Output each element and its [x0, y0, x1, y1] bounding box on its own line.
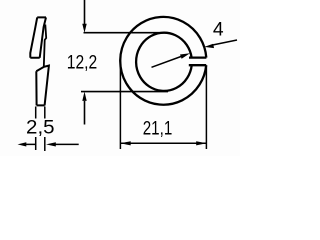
svg-text:21,1: 21,1	[143, 119, 173, 140]
svg-text:4: 4	[213, 20, 224, 41]
svg-text:12,2: 12,2	[67, 53, 98, 74]
svg-text:2,5: 2,5	[26, 117, 55, 138]
